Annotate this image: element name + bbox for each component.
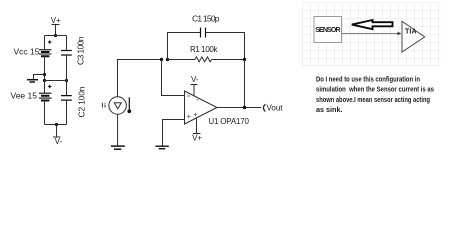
- node dot feedback right junction: [243, 58, 246, 61]
- wire battery V1 top lead: [44, 36, 46, 50]
- wire current source top lead: [118, 60, 162, 97]
- svg-text:R1 100k: R1 100k: [190, 45, 219, 54]
- wire bottom rail: [45, 124, 67, 126]
- node dot ground tap: [43, 73, 46, 76]
- capacitor C3: [61, 36, 86, 65]
- pin + (V+ supply mark): [194, 113, 197, 116]
- wire sensor to TIA: [342, 33, 399, 35]
- terminal V- (bottom): [53, 125, 62, 147]
- op-amp U1 OPA170: [185, 91, 250, 126]
- battery Vcc 15: [14, 40, 52, 56]
- arrowhead into TIA: [398, 32, 402, 36]
- wire right leg down to output: [244, 60, 246, 108]
- battery Vee 15: [11, 85, 52, 101]
- svg-text:Vee 15: Vee 15: [11, 91, 38, 101]
- wire node A to inverting input: [162, 60, 185, 96]
- wire capacitor C3 top lead: [66, 36, 68, 51]
- ground (left): [27, 80, 38, 82]
- wire C1 right to right leg: [206, 33, 245, 60]
- terminal V+ (top): [51, 16, 61, 36]
- svg-text:Vcc 15: Vcc 15: [14, 46, 40, 56]
- svg-text:C1 150p: C1 150p: [192, 14, 220, 24]
- svg-text:C3 100n: C3 100n: [76, 36, 86, 65]
- svg-text:C2 100n: C2 100n: [77, 86, 87, 117]
- sensor block: [314, 17, 342, 43]
- wire capacitor C2 top lead: [66, 81, 68, 96]
- wire capacitor C2 bottom lead: [66, 100, 68, 124]
- terminal V- (op-amp top supply): [191, 75, 199, 96]
- wire ground tap: [34, 75, 45, 80]
- terminal V+ (op-amp bottom supply): [192, 118, 202, 143]
- grid (sensor sketch background): [303, 2, 442, 66]
- svg-text:V-: V-: [191, 75, 199, 84]
- pin + (non-inverting input mark): [187, 115, 191, 119]
- wire battery V1 bottom lead: [44, 56, 46, 80]
- pin - (V- supply mark): [196, 99, 199, 101]
- node dot top rail: [54, 34, 57, 37]
- wire node B up to C1: [168, 33, 201, 60]
- node dot output: [243, 106, 246, 109]
- svg-text:Vout: Vout: [267, 104, 284, 113]
- wire top rail: [45, 35, 67, 37]
- pin - (inverting input mark): [187, 95, 190, 97]
- TIA amplifier triangle: [402, 21, 425, 52]
- node dot mid rail left: [43, 79, 46, 82]
- wire mid rail: [45, 80, 67, 82]
- block arrow (current direction, pointing left): [352, 20, 393, 29]
- terminal Vout: [263, 104, 283, 113]
- current source II: [102, 97, 131, 115]
- svg-text:simulation when the Sensor cu: simulation when the Sensor current is as: [316, 85, 434, 94]
- ground (current source): [111, 146, 125, 149]
- capacitor C2: [61, 86, 87, 117]
- wire R1 right to right leg: [212, 59, 245, 61]
- resistor R1 100k: [190, 45, 219, 62]
- capacitor C1 150p: [192, 14, 220, 38]
- svg-text:shown above.I mean sensor acti: shown above.I mean sensor acting acting: [316, 95, 430, 104]
- svg-text:U1 OPA170: U1 OPA170: [208, 117, 249, 126]
- svg-text:as sink.: as sink.: [316, 105, 343, 114]
- svg-text:V-: V-: [55, 137, 63, 146]
- node dot mid rail right: [65, 79, 68, 82]
- wire node B to R1: [168, 59, 196, 61]
- svg-text:Do I need to use this configur: Do I need to use this configuration in: [316, 74, 420, 83]
- wire capacitor C3 bottom lead: [66, 55, 68, 81]
- wire op-amp output: [217, 107, 261, 109]
- svg-text:SENSOR: SENSOR: [315, 27, 340, 34]
- wire battery V2 bottom lead: [44, 101, 46, 125]
- wire current source bottom lead: [117, 114, 119, 145]
- node dot bottom rail: [55, 123, 58, 126]
- wire non-inverting input to ground: [163, 120, 185, 146]
- svg-text:V+: V+: [51, 16, 61, 25]
- node A (inverting input junction): [160, 58, 163, 61]
- ground (non-inverting input): [156, 146, 169, 149]
- wire battery V2 top lead: [44, 81, 46, 94]
- svg-text:V+: V+: [192, 134, 202, 143]
- svg-text:TIA: TIA: [405, 29, 417, 36]
- question text: [316, 74, 434, 114]
- node B (C1 branch junction): [166, 58, 169, 61]
